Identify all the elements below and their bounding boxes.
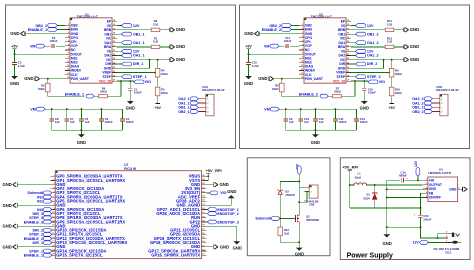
ground GND (AGND): [206, 198, 231, 205]
wire VM rail: [279, 108, 356, 110]
ground GND: [11, 76, 18, 79]
net label OA2_2: [351, 54, 356, 56]
U4 pin 2 OUTPUT: [423, 184, 428, 186]
U1 pin 21 BRA: [112, 46, 117, 48]
U1 pin 17 BRB: [112, 29, 117, 31]
connector DC1 DC-005 barrel jack: [444, 232, 448, 234]
svg-text:VCC_IO: VCC_IO: [99, 79, 112, 83]
junction: [354, 80, 356, 82]
svg-text:GND: GND: [10, 81, 19, 86]
U2 pin 1 OB2: [299, 24, 304, 26]
U7 pin 30 RUN: [202, 217, 207, 219]
connector CN8 ZX-3042.5M: [309, 185, 318, 198]
U7 pin 10 GP7_SPI0TX_I2C1SCL: [51, 213, 56, 215]
U1 pin 22 VS: [112, 50, 117, 52]
svg-text:GND: GND: [176, 44, 185, 49]
svg-text:DB12RV-5.08-4P: DB12RV-5.08-4P: [436, 88, 458, 92]
U4 pin 5 ON/OFF: [423, 197, 428, 199]
svg-text:PICO W: PICO W: [124, 167, 136, 171]
wire: [48, 92, 85, 96]
U7 pin 37 3V3_EN: [202, 188, 207, 190]
svg-text:VM: VM: [30, 45, 36, 49]
svg-text:GND: GND: [295, 252, 304, 257]
junction: [363, 80, 365, 82]
U7 pin 11 GP8_SPI1RX_I2C0SDA_UART1TX: [51, 217, 56, 219]
svg-text:GND: GND: [2, 244, 11, 249]
svg-text:OA1_1: OA1_1: [133, 41, 145, 45]
U2 pin 12 INDEX: [299, 70, 304, 72]
net label 12V: [117, 50, 122, 52]
svg-text:GND: GND: [2, 203, 11, 208]
ground GND: [206, 246, 213, 248]
wire: [292, 24, 300, 26]
CN1 pin 2 OA1_1: [198, 102, 205, 104]
svg-text:GND: GND: [410, 27, 419, 32]
U1 pin 24 NC: [112, 59, 117, 61]
U2 pin 13 CLK: [299, 74, 304, 76]
svg-text:1uF: 1uF: [85, 120, 90, 124]
svg-text:1N4007: 1N4007: [285, 193, 295, 197]
U2 pin 10 MS2: [299, 61, 304, 63]
svg-text:Power Supply: Power Supply: [347, 252, 393, 259]
junction: [314, 129, 316, 131]
U1 pin 28 STEP: [112, 76, 117, 78]
svg-text:L1: L1: [358, 172, 362, 176]
junction: [279, 217, 281, 219]
junction: [129, 80, 131, 82]
wire: [298, 175, 300, 214]
svg-text:20kΩ: 20kΩ: [100, 90, 107, 94]
wire gnd rail: [52, 129, 123, 131]
svg-text:PDN_UART: PDN_UART: [305, 77, 323, 81]
svg-text:GND: GND: [220, 244, 229, 249]
wire: [351, 72, 390, 74]
wire FB: [421, 193, 424, 215]
svg-text:100nF: 100nF: [105, 120, 113, 124]
capacitor C7 1uF: [66, 108, 68, 110]
junction: [149, 59, 151, 61]
U1 pin 11 DIAG: [65, 65, 70, 67]
resistor R3 20k: [157, 77, 159, 87]
U7 pin 3 GND: [51, 184, 56, 186]
U2 pin 14 PDN_UART: [299, 78, 304, 80]
U7 pin 25 GP19_SPI0TX_I2C1SCL: [202, 238, 207, 240]
svg-text:GND: GND: [220, 182, 229, 187]
junction: [391, 59, 393, 61]
border box U1 section: [6, 5, 236, 149]
svg-text:STEP_1: STEP_1: [133, 75, 147, 79]
svg-text:GND: GND: [227, 189, 236, 194]
junction: [298, 181, 300, 183]
wire: [206, 175, 208, 177]
capacitor C11 100nF: [334, 108, 336, 110]
svg-text:IN1: IN1: [37, 200, 43, 204]
transistor Q1 IRF520NB: [294, 217, 295, 219]
svg-text:+5V_RPI: +5V_RPI: [342, 165, 358, 170]
U2 pin 18 OB1: [346, 33, 351, 35]
junction: [47, 78, 49, 80]
wire: [56, 45, 65, 47]
U1 pin 20 DA1: [112, 42, 117, 44]
U2 pin 21 BRA: [346, 46, 351, 48]
ground GND: [169, 58, 171, 62]
svg-text:OA2_1: OA2_1: [133, 54, 145, 58]
svg-text:TMC2208-LA-T: TMC2208-LA-T: [311, 15, 332, 19]
capacitor C16 100nF: [363, 81, 365, 88]
ground GND: [169, 28, 171, 32]
svg-text:D1: D1: [366, 193, 370, 197]
resistor R1 sense: [117, 46, 151, 48]
wire: [259, 33, 299, 35]
svg-text:220uF: 220uF: [423, 217, 431, 221]
U1 pin 3 GND: [65, 33, 70, 35]
svg-text:GND: GND: [258, 76, 267, 81]
svg-text:GND: GND: [244, 81, 253, 86]
U7 pin 23 GND: [202, 246, 207, 248]
wire: [58, 29, 66, 31]
junction: [420, 226, 422, 228]
svg-text:+: +: [406, 177, 408, 181]
svg-text:R13: R13: [284, 228, 289, 232]
U2 pin 20 DA1: [346, 42, 351, 44]
ground GND: [169, 45, 171, 49]
svg-text:VIO: VIO: [379, 80, 385, 84]
junction: [298, 201, 300, 203]
U1 pin 10 MS2: [65, 61, 70, 63]
wire: [25, 33, 65, 35]
U7 pin 38 GND: [202, 184, 207, 186]
svg-text:OB2_1: OB2_1: [178, 110, 189, 114]
CN2 pin 3 OB1_2: [432, 106, 439, 108]
U2 pin 23 DA2: [346, 54, 351, 56]
net label OA2_1: [117, 54, 122, 56]
U1 pin 13 CLK: [65, 74, 70, 76]
svg-text:LM2596S-5.0/TR: LM2596S-5.0/TR: [428, 171, 452, 175]
U7 pin 20 GP15_SPI1TX_I2C1SCL: [51, 254, 56, 256]
junction: [386, 197, 388, 199]
microcontroller U7 PICO W: [55, 171, 201, 259]
U1 pin 27 VREF: [112, 72, 117, 74]
svg-text:12V: 12V: [133, 24, 140, 28]
svg-text:+5V_RPI: +5V_RPI: [206, 168, 222, 173]
svg-text:R5: R5: [41, 83, 45, 87]
junction: [386, 188, 388, 190]
svg-text:GND: GND: [2, 224, 11, 229]
net label OA1_1: [117, 42, 122, 44]
wire: [282, 92, 319, 96]
svg-text:TMC2208-LA-T: TMC2208-LA-T: [77, 15, 98, 19]
U7 pin 13 GND: [51, 225, 56, 227]
svg-text:100nF: 100nF: [134, 90, 142, 94]
svg-text:DIR_1: DIR_1: [133, 62, 143, 66]
capacitor C6 100nF: [100, 108, 102, 110]
junction: [14, 53, 16, 55]
wire: [17, 225, 50, 227]
U1 pin 18 OB1: [112, 33, 117, 35]
junction: [248, 53, 250, 55]
svg-text:ENABLE_3: ENABLE_3: [24, 220, 43, 224]
svg-text:1uF: 1uF: [55, 120, 60, 124]
ground GND: [206, 226, 236, 241]
wire VCC_IO: [117, 80, 134, 82]
svg-text:ENABLE_1: ENABLE_1: [28, 28, 47, 32]
U7 pin 32 GP27_ADC1_I2C1SCL: [202, 209, 207, 211]
U7 pin 40 VBUS: [202, 175, 207, 177]
wire ON/OFF: [387, 197, 423, 199]
svg-text:VIO: VIO: [220, 191, 226, 195]
capacitor C20 220uF: [418, 214, 423, 216]
U7 pin 2 GP1_SPI0CSn_I2C0SCL_UART0RX: [51, 179, 56, 181]
svg-text:+5V: +5V: [245, 45, 252, 49]
U2 pin 24 NC: [346, 59, 351, 61]
U2 pin 29 VCC_IO: [346, 80, 351, 82]
U7 pin 7 GP5_SPI0CSn_I2C0SCL_UART1RX: [51, 200, 56, 202]
junction: [417, 179, 419, 181]
U2 pin 27 VREF: [346, 72, 351, 74]
net label DIR_2: [351, 63, 356, 65]
svg-text:STEP_2: STEP_2: [367, 75, 381, 79]
svg-text:ZX-3042.5M: ZX-3042.5M: [304, 199, 318, 203]
svg-text:1uF: 1uF: [289, 120, 294, 124]
ground GND: [298, 242, 300, 247]
svg-text:1uF: 1uF: [70, 120, 75, 124]
U7 pin 35 ADC_VREF: [202, 196, 207, 198]
border box solenoid driver: [247, 158, 330, 256]
svg-text:VIO: VIO: [145, 80, 151, 84]
resistor R10 20k: [391, 77, 393, 87]
U7 pin 5 GP3_SPI0TX_I2C1SCL: [51, 192, 56, 194]
svg-text:OA1_2: OA1_2: [367, 41, 379, 45]
net label VIO: [134, 80, 144, 84]
U4 pin 4 FB: [423, 192, 428, 194]
U1 pin 2 ENN: [65, 29, 70, 31]
svg-text:OB1_1: OB1_1: [133, 32, 145, 36]
wire GND pin: [387, 188, 423, 190]
U7 pin 39 VSYS: [202, 179, 207, 181]
U1 pin 19 NC: [112, 37, 117, 39]
net label VIO: [368, 80, 378, 84]
U7 pin 26 GP20_I2C0SDA: [202, 233, 207, 235]
power +5V: [157, 96, 159, 104]
wire: [58, 24, 66, 26]
CN1 pin 4 OB2_1: [198, 111, 205, 113]
svg-text:GND: GND: [176, 27, 185, 32]
resistor R13 1k: [279, 218, 281, 227]
wire: [299, 192, 307, 203]
wire: [341, 81, 355, 96]
U1 pin 9 MS1: [65, 57, 70, 59]
junction: [157, 59, 159, 61]
svg-text:OB2_2: OB2_2: [412, 110, 423, 114]
U2 pin 5 CPI: [299, 41, 304, 43]
svg-text:R10: R10: [395, 87, 400, 91]
wire: [421, 217, 438, 238]
svg-text:GND: GND: [10, 31, 19, 36]
U2 pin 17 BRB: [346, 29, 351, 31]
U2 pin 26 GND: [346, 67, 351, 69]
diode D1 SS34: [374, 185, 376, 193]
CN1 pin 1 OA2_1: [198, 98, 205, 100]
capacitor C4 100nF: [122, 109, 124, 119]
svg-text:100nF: 100nF: [50, 39, 58, 43]
CN1 pin 3 OB1_1: [198, 106, 205, 108]
U7 pin 1 GP0_SPI0RX_I2C0SDA_UART0TX: [51, 175, 56, 177]
svg-text:GND: GND: [24, 76, 33, 81]
svg-text:GND: GND: [2, 182, 11, 187]
svg-text:1uF: 1uF: [319, 120, 324, 124]
svg-text:ENDSTOP_2: ENDSTOP_2: [217, 212, 238, 216]
wire gnd rail: [286, 129, 357, 131]
svg-text:12V: 12V: [414, 160, 418, 167]
svg-text:R9: R9: [395, 69, 399, 73]
wire: [280, 217, 294, 219]
ground GND: [127, 101, 134, 104]
svg-text:33uH: 33uH: [355, 175, 362, 179]
U1 pin 15 EP: [112, 20, 117, 22]
wire: [349, 170, 351, 208]
net label VIO: [206, 192, 209, 194]
junction: [383, 59, 385, 61]
U4 pin 1 +IN: [423, 179, 428, 181]
svg-text:OA2_2: OA2_2: [367, 54, 379, 58]
svg-text:100nF: 100nF: [368, 90, 376, 94]
wire: [107, 81, 121, 96]
wire: [274, 78, 299, 80]
wire: [248, 49, 250, 54]
U7 pin 14 GP10_SPI1SCK_I2C1SDA: [51, 229, 56, 231]
ground GND: [403, 58, 405, 62]
svg-text:GP1_SPI0CSn_I2C0SCL_UART0RX: GP1_SPI0CSn_I2C0SCL_UART0RX: [56, 178, 125, 183]
svg-text:12V: 12V: [367, 24, 374, 28]
svg-text:VM: VM: [264, 108, 270, 112]
resistor R9 20k: [391, 60, 393, 69]
capacitor C8 1uF: [51, 108, 53, 110]
capacitor C5 1uF: [80, 108, 82, 110]
svg-text:100nF: 100nF: [126, 120, 134, 124]
svg-text:OB1_2: OB1_2: [367, 32, 379, 36]
wire GND net: [351, 59, 404, 61]
ground GND: [386, 227, 388, 234]
svg-text:GND: GND: [410, 57, 419, 62]
net label OB1_2: [351, 33, 356, 35]
ground GND: [403, 45, 405, 49]
svg-text:ENDSTOP_3: ENDSTOP_3: [217, 220, 238, 224]
resistor R5 20k: [47, 79, 49, 84]
U2 pin 4 CPO: [299, 37, 304, 39]
CN2 pin 4 OB2_2: [432, 111, 439, 113]
U1 pin 14 PDN_UART: [65, 78, 70, 80]
U1 pin 25 DIR: [112, 63, 117, 65]
net label 12V: [351, 50, 356, 52]
U7 pin 28 GND: [202, 225, 207, 227]
U7 pin 36 3V3(OUT): [202, 192, 207, 194]
wire: [405, 179, 423, 181]
wire: [14, 49, 16, 54]
svg-text:ENABLE_1: ENABLE_1: [65, 92, 84, 96]
svg-text:12V: 12V: [413, 241, 420, 245]
junction: [298, 241, 300, 243]
U2 pin 19 NC: [346, 37, 351, 39]
svg-text:100nF: 100nF: [360, 120, 368, 124]
U2 pin 6 VCP: [299, 45, 304, 47]
svg-text:20kΩ: 20kΩ: [38, 87, 45, 91]
wire: [438, 233, 445, 238]
U2 pin 3 GND: [299, 33, 304, 35]
U2 pin 16 VS: [346, 25, 351, 27]
U2 pin 28 STEP: [346, 76, 351, 78]
net label ENDSTOP_1: [206, 209, 207, 211]
U7 pin 18 GND: [51, 246, 56, 248]
wire: [45, 45, 50, 47]
svg-text:4.7uF: 4.7uF: [252, 64, 260, 68]
svg-text:+5V: +5V: [154, 106, 161, 110]
svg-text:20kΩ: 20kΩ: [334, 90, 341, 94]
U7 pin 29 GP22: [202, 221, 207, 223]
svg-text:GND: GND: [77, 140, 86, 145]
svg-text:PDN_UART: PDN_UART: [71, 77, 89, 81]
svg-text:Solenoid: Solenoid: [255, 217, 271, 221]
junction: [281, 78, 283, 80]
ground GND: [403, 28, 405, 32]
U1 pin 26 GND: [112, 67, 117, 69]
U7 pin 22 GP17_SPI0CSn_UART0RX: [202, 250, 207, 252]
net label 12V: [117, 25, 122, 27]
U2 pin 9 MS1: [299, 57, 304, 59]
wire: [367, 184, 423, 186]
svg-text:CN8: CN8: [309, 203, 315, 207]
capacitor C15 4.7uF: [248, 54, 250, 62]
wire GND net: [117, 59, 170, 61]
diode D2 1N4007: [279, 182, 281, 191]
svg-text:R3: R3: [161, 87, 165, 91]
U7 pin 4 GP2_SPI0SCK_I2C1SDA: [51, 188, 56, 190]
wire: [298, 223, 300, 242]
wire: [206, 173, 208, 180]
svg-text:100nF: 100nF: [339, 120, 347, 124]
svg-text:11Ω: 11Ω: [387, 40, 393, 44]
CN2 pin 1 OA2_2: [432, 98, 439, 100]
svg-text:100nF: 100nF: [284, 39, 292, 43]
wire: [428, 241, 444, 243]
resistor R4 20k: [157, 60, 159, 69]
svg-text:GND: GND: [382, 241, 391, 246]
resistor R12 sense: [351, 46, 385, 48]
svg-text:11Ω: 11Ω: [387, 22, 393, 26]
svg-text:GP5_SPI0CSn_I2C0SCL_UART1RX: GP5_SPI0CSn_I2C0SCL_UART1RX: [56, 199, 125, 204]
resistor R11 sense: [351, 29, 385, 31]
U2 pin 8 5VOUT: [299, 53, 304, 55]
capacitor C13 100nF: [356, 109, 358, 119]
U4 pin 3 GND: [423, 188, 428, 190]
svg-text:GND: GND: [410, 44, 419, 49]
svg-text:20kΩ: 20kΩ: [161, 72, 168, 76]
wire: [279, 45, 284, 47]
net label OA1_2: [351, 42, 356, 44]
svg-text:GND: GND: [449, 187, 457, 191]
U7 pin 19 GP14_SPI1SCK_I2C1SDA: [51, 250, 56, 252]
U1 pin 4 CPO: [65, 37, 70, 39]
wire: [351, 60, 384, 69]
U2 pin 15 EP: [346, 20, 351, 22]
svg-text:SS34: SS34: [363, 197, 370, 201]
U7 pin 34 GP28_ADC2: [202, 200, 207, 202]
svg-text:ENABLE_2: ENABLE_2: [299, 92, 318, 96]
U7 pin 6 GP4_SPI0RX_I2C0SDA_UART1TX: [51, 196, 56, 198]
wire VM rail: [45, 108, 122, 110]
svg-text:20kΩ: 20kΩ: [272, 87, 279, 91]
U4 pin 6 GND (tab): [458, 188, 463, 190]
svg-text:R4: R4: [161, 69, 165, 73]
